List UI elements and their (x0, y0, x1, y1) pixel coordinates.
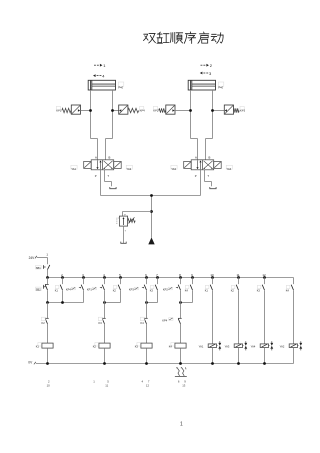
svg-text:YA2: YA2 (280, 345, 285, 349)
svg-text:SB1: SB1 (36, 266, 41, 270)
svg-text:K2: K2 (42, 321, 46, 325)
svg-text:12: 12 (262, 273, 266, 277)
svg-text:A: A (95, 156, 97, 160)
svg-text:SB2: SB2 (36, 288, 41, 292)
svg-text:B: B (109, 156, 111, 160)
svg-text:YA1: YA1 (199, 345, 204, 349)
svg-text:11: 11 (236, 273, 239, 277)
svg-text:KP2: KP2 (163, 288, 168, 292)
svg-text:12: 12 (146, 384, 150, 388)
svg-text:KP4: KP4 (162, 318, 167, 322)
svg-text:K3: K3 (257, 289, 261, 293)
svg-text:P: P (195, 174, 197, 178)
svg-text:K2: K2 (231, 289, 235, 293)
svg-text:KP3: KP3 (240, 108, 246, 112)
svg-text:K4: K4 (141, 321, 145, 325)
svg-text:P=0: P=0 (218, 86, 223, 90)
svg-text:YA4: YA4 (227, 167, 232, 171)
svg-text:K3: K3 (99, 321, 103, 325)
svg-text:YA4: YA4 (251, 345, 256, 349)
svg-text:K1: K1 (55, 289, 59, 293)
svg-text:K2: K2 (93, 345, 97, 349)
svg-text:13: 13 (182, 384, 186, 388)
svg-text:11: 11 (105, 384, 108, 388)
svg-text:B: B (209, 156, 211, 160)
svg-text:24V: 24V (29, 256, 36, 260)
svg-text:YA1: YA1 (71, 167, 76, 171)
svg-text:YA3: YA3 (225, 345, 230, 349)
svg-text:KP1: KP1 (56, 108, 62, 112)
svg-text:KP4: KP4 (140, 108, 146, 112)
svg-text:K3: K3 (150, 289, 154, 293)
svg-text:K4: K4 (286, 289, 290, 293)
svg-text:P: P (95, 174, 97, 178)
svg-text:YA2: YA2 (127, 167, 132, 171)
svg-text:K4: K4 (185, 289, 189, 293)
svg-text:K1: K1 (205, 289, 209, 293)
svg-text:A: A (195, 156, 197, 160)
svg-text:K4: K4 (169, 345, 173, 349)
svg-text:10: 10 (47, 384, 51, 388)
svg-text:K2: K2 (113, 289, 117, 293)
svg-text:KP2: KP2 (153, 108, 159, 112)
svg-text:K1: K1 (36, 345, 40, 349)
svg-text:K3: K3 (135, 345, 139, 349)
svg-text:P=0: P=0 (118, 86, 123, 90)
svg-text:KP3: KP3 (129, 288, 134, 292)
svg-text:1: 1 (180, 422, 183, 428)
svg-text:KP4: KP4 (66, 288, 71, 292)
svg-text:10: 10 (210, 273, 214, 277)
svg-text:YA3: YA3 (171, 167, 176, 171)
svg-text:KP1: KP1 (87, 288, 92, 292)
